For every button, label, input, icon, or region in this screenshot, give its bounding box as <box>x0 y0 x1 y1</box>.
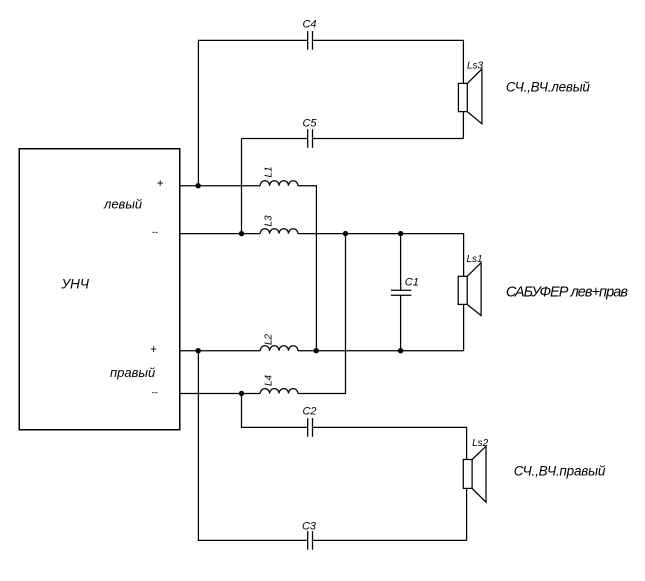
capacitor C2 <box>308 418 313 437</box>
svg-text:L4: L4 <box>264 374 275 386</box>
wire: C3 branch from row3 junction <box>198 351 466 541</box>
svg-text:левый: левый <box>103 197 142 212</box>
wire: Ls1 bottom terminal down to row3 <box>463 304 465 350</box>
svg-text:C5: C5 <box>302 118 317 130</box>
loudspeaker Ls1 <box>458 263 481 316</box>
loudspeaker Ls3 <box>458 69 482 124</box>
inductor L1 <box>260 181 298 186</box>
junction node row4/C2 <box>239 391 244 396</box>
wire: Ls3 bottom terminal to C5 <box>462 112 464 139</box>
svg-text:L1: L1 <box>264 166 275 177</box>
capacitor C5 <box>308 129 313 148</box>
capacitor C3 <box>308 531 313 550</box>
inductor L4 <box>260 389 298 394</box>
wire: C5 horizontal <box>242 138 464 140</box>
wire row3 left: amp right + output to L2 <box>180 350 261 352</box>
svg-text:СЧ.,ВЧ.левый: СЧ.,ВЧ.левый <box>506 79 590 94</box>
svg-text:Ls1: Ls1 <box>467 254 483 265</box>
loudspeaker Ls2 <box>463 446 486 502</box>
capacitor C4 <box>308 31 313 50</box>
svg-text:C2: C2 <box>302 405 316 417</box>
svg-text:СЧ.,ВЧ.правый: СЧ.,ВЧ.правый <box>514 463 606 478</box>
svg-text:+: + <box>150 344 157 356</box>
junction node row2/C5 <box>239 231 244 236</box>
svg-text:L3: L3 <box>264 215 275 227</box>
svg-text:правый: правый <box>110 365 155 380</box>
svg-text:Ls2: Ls2 <box>472 438 489 449</box>
wire: Ls2 bottom terminal down to C3 <box>466 488 468 540</box>
svg-text:L2: L2 <box>264 333 275 345</box>
svg-text:--: -- <box>151 387 157 398</box>
svg-text:C4: C4 <box>302 19 316 31</box>
wire: L4 output up to row2 junction <box>298 234 346 394</box>
svg-text:Ls3: Ls3 <box>467 61 484 72</box>
svg-text:C1: C1 <box>405 276 419 288</box>
wire: C4 to Ls3 top terminal <box>462 40 464 83</box>
junction node row3/C1 <box>398 348 403 353</box>
svg-text:УНЧ: УНЧ <box>61 276 90 291</box>
wire row1: amp left + output to L1 <box>180 185 261 187</box>
svg-text:C3: C3 <box>302 521 317 533</box>
wire row2: amp left - output to L3 <box>180 233 261 235</box>
wire: C4 top horizontal <box>198 39 464 41</box>
junction node row2/L4 <box>343 231 348 236</box>
svg-text:--: -- <box>152 227 158 238</box>
wire: C1 top lead from row2 junction <box>400 234 402 291</box>
amplifier box U1 УНЧ <box>19 149 180 430</box>
junction node row3/C3 <box>196 348 201 353</box>
junction node row1/C4 <box>196 183 201 188</box>
junction node row3/L1 <box>314 348 319 353</box>
inductor L3 <box>260 229 298 234</box>
wire row4: amp right - output to L4 <box>180 393 261 395</box>
wire row2 right: L3 output to Ls1 top terminal <box>298 234 464 277</box>
wire: C1 bottom lead to row3 junction <box>400 295 402 350</box>
svg-text:+: + <box>157 178 164 190</box>
wire row3 right: L2 output to Ls1 branch <box>298 350 464 352</box>
wire: C4 branch left vertical from row1 junction <box>197 40 199 185</box>
svg-text:САБУФЕР лев+прав: САБУФЕР лев+прав <box>506 284 628 300</box>
junction node row2/C1 <box>398 231 403 236</box>
inductor L2 <box>260 346 298 351</box>
capacitor C1 <box>391 290 411 295</box>
wire: C5 left vertical down to row2 junction <box>241 139 243 234</box>
wire: C2 branch from row4 junction <box>242 394 467 460</box>
wire: L1 output down to row3 junction <box>298 186 317 351</box>
